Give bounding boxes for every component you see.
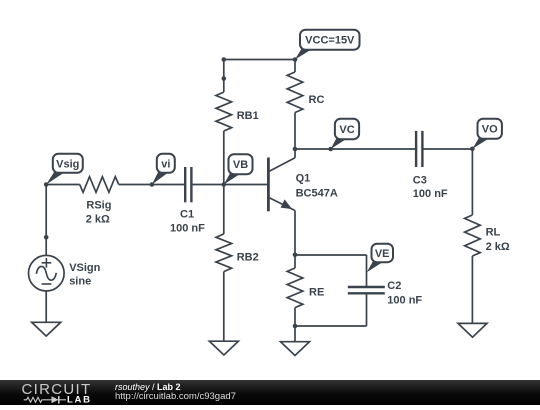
svg-text:2 kΩ: 2 kΩ: [486, 241, 510, 253]
svg-text:100 nF: 100 nF: [387, 295, 422, 307]
svg-text:RL: RL: [486, 227, 501, 239]
svg-text:100 nF: 100 nF: [170, 223, 205, 235]
svg-text:VSign: VSign: [69, 262, 100, 274]
svg-text:C3: C3: [413, 175, 427, 187]
svg-text:Q1: Q1: [296, 173, 311, 185]
svg-text:vi: vi: [161, 158, 170, 170]
svg-text:VB: VB: [233, 159, 248, 171]
svg-text:LAB: LAB: [67, 394, 92, 405]
svg-text:C1: C1: [180, 209, 194, 221]
svg-text:RB1: RB1: [237, 110, 259, 122]
svg-text:C2: C2: [387, 280, 401, 292]
svg-text:RSig: RSig: [86, 200, 111, 212]
svg-text:VO: VO: [482, 124, 498, 136]
svg-text:2 kΩ: 2 kΩ: [86, 214, 110, 226]
svg-text:Vsig: Vsig: [56, 158, 79, 170]
svg-text:RE: RE: [309, 287, 324, 299]
svg-text:VC: VC: [339, 124, 354, 136]
svg-text:RC: RC: [309, 94, 325, 106]
svg-text:sine: sine: [69, 276, 91, 288]
svg-text:RB2: RB2: [237, 252, 259, 264]
svg-text:BC547A: BC547A: [296, 188, 338, 200]
svg-text:VE: VE: [375, 248, 390, 260]
svg-text:VCC=15V: VCC=15V: [305, 35, 355, 47]
svg-text:100 nF: 100 nF: [413, 188, 448, 200]
